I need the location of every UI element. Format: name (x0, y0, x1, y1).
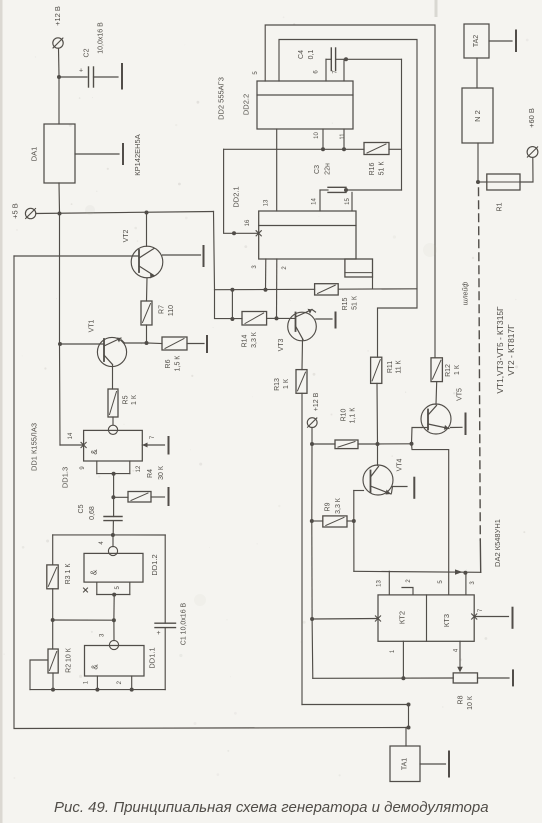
svg-text:15: 15 (345, 198, 351, 205)
svg-text:R8: R8 (458, 695, 465, 704)
svg-text:1,1 К: 1,1 К (350, 407, 357, 424)
svg-text:R6: R6 (165, 359, 172, 368)
svg-text:TA1: TA1 (402, 758, 409, 770)
svg-text:R16: R16 (369, 162, 376, 175)
svg-text:R10: R10 (341, 408, 348, 421)
svg-text:R5: R5 (123, 395, 130, 404)
svg-text:КР142ЕН5А: КР142ЕН5А (133, 134, 142, 175)
svg-text:+12 В: +12 В (53, 6, 62, 26)
svg-text:VT1: VT1 (89, 319, 96, 332)
svg-text:51 К: 51 К (379, 161, 386, 176)
svg-text:22н: 22н (325, 163, 332, 175)
svg-text:Рис. 49. Принципиальная схема: Рис. 49. Принципиальная схема генератора… (54, 799, 489, 816)
svg-text:C3: C3 (314, 165, 321, 174)
svg-text:12: 12 (136, 465, 142, 472)
svg-text:N 2: N 2 (473, 110, 482, 122)
svg-text:+: + (79, 68, 83, 75)
svg-text:DA2 К548УН1: DA2 К548УН1 (493, 519, 502, 567)
svg-text:+60 В: +60 В (527, 108, 536, 128)
svg-text:КТ3: КТ3 (442, 614, 451, 627)
svg-text:DD1.1: DD1.1 (148, 647, 157, 668)
svg-text:&: & (91, 664, 100, 670)
svg-text:VT2: VT2 (123, 229, 130, 242)
svg-text:VT3: VT3 (278, 338, 285, 351)
svg-text:R14: R14 (242, 334, 249, 347)
svg-text:1 К: 1 К (131, 394, 138, 405)
svg-text:R7: R7 (159, 305, 166, 314)
svg-text:3,3 К: 3,3 К (251, 331, 258, 348)
svg-text:R13: R13 (274, 378, 281, 391)
svg-text:10,0x16 В: 10,0x16 В (98, 22, 105, 54)
svg-text:C4: C4 (298, 50, 305, 59)
svg-text:R11: R11 (387, 361, 394, 373)
svg-text:VT1,VT3-VT5 - КТ315Г: VT1,VT3-VT5 - КТ315Г (495, 306, 505, 394)
svg-text:C1 10,0x16 В: C1 10,0x16 В (181, 602, 188, 645)
svg-text:16: 16 (245, 219, 251, 226)
svg-text:C5: C5 (78, 504, 85, 513)
svg-text:+: + (156, 630, 160, 637)
svg-text:11 К: 11 К (396, 359, 403, 373)
svg-text:+12 В: +12 В (313, 392, 320, 411)
svg-text:DD2.1: DD2.1 (232, 186, 241, 207)
svg-text:R3 1 К: R3 1 К (65, 563, 72, 585)
svg-text:&: & (90, 449, 99, 455)
svg-text:14: 14 (68, 432, 74, 439)
svg-text:DD1.3: DD1.3 (61, 467, 70, 488)
svg-text:1 К: 1 К (454, 364, 461, 375)
svg-text:13: 13 (377, 580, 383, 587)
svg-text:10: 10 (314, 132, 320, 139)
svg-text:шлейф: шлейф (462, 282, 470, 306)
svg-text:R12: R12 (445, 364, 452, 377)
svg-text:0,68: 0,68 (89, 506, 96, 520)
svg-text:R9: R9 (325, 502, 332, 511)
svg-text:R4: R4 (147, 469, 154, 478)
svg-text:+5 В: +5 В (11, 203, 20, 219)
svg-text:VT5: VT5 (457, 388, 464, 401)
svg-text:R15: R15 (342, 297, 349, 310)
svg-text:110: 110 (168, 305, 175, 316)
svg-text:VT2 - КТ817Г: VT2 - КТ817Г (506, 324, 516, 376)
svg-text:VT4: VT4 (397, 458, 404, 471)
svg-text:DA1: DA1 (30, 147, 39, 162)
svg-text:DD1 К155ЛА3: DD1 К155ЛА3 (30, 423, 39, 471)
svg-text:DD2.2: DD2.2 (242, 94, 251, 115)
svg-text:14: 14 (312, 198, 318, 205)
svg-text:1,5 К: 1,5 К (175, 355, 182, 372)
svg-text:&: & (90, 569, 99, 575)
svg-text:51 К: 51 К (352, 295, 359, 310)
svg-text:10 К: 10 К (467, 695, 474, 710)
svg-text:30 К: 30 К (158, 465, 165, 480)
svg-text:11: 11 (340, 133, 346, 140)
svg-text:R1: R1 (497, 202, 504, 211)
svg-text:1 К: 1 К (283, 378, 290, 389)
svg-text:TA2: TA2 (473, 35, 480, 47)
svg-text:C2: C2 (84, 48, 91, 57)
svg-text:КТ2: КТ2 (398, 611, 407, 624)
svg-text:13: 13 (264, 199, 270, 206)
svg-text:R2 10 К: R2 10 К (66, 647, 73, 673)
svg-text:DD1.2: DD1.2 (150, 554, 159, 575)
svg-text:DD2 555АГ3: DD2 555АГ3 (217, 77, 226, 120)
svg-text:0,1: 0,1 (308, 50, 315, 60)
svg-text:3,3 К: 3,3 К (335, 497, 342, 514)
